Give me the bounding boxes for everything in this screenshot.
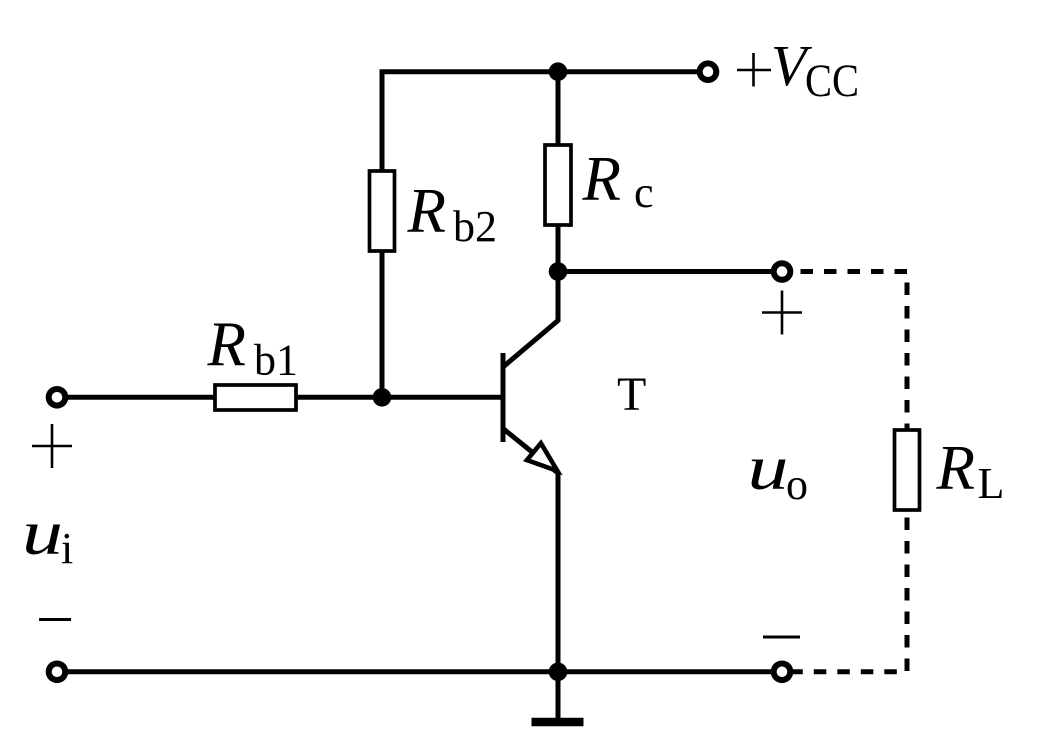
wire top rail and Rb2 vertical — [382, 72, 700, 398]
label input plus — [32, 445, 72, 448]
terminal output top — [774, 263, 791, 280]
wire collector to output — [558, 269, 775, 274]
wire emitter diagonal and vertical — [503, 429, 558, 672]
wire bottom rail — [57, 669, 775, 674]
resistor RL body — [895, 430, 920, 510]
svg-text:u: u — [22, 498, 63, 568]
svg-text:u: u — [748, 433, 789, 503]
node collector junction — [549, 262, 568, 281]
resistor Rb1 body — [215, 385, 296, 410]
svg-text:R: R — [207, 310, 246, 380]
resistor Rb2 body — [370, 171, 395, 251]
svg-text:R: R — [407, 176, 446, 246]
label input minus — [39, 618, 71, 621]
transistor T emitter arrow — [527, 443, 558, 471]
terminal output bottom — [774, 664, 791, 681]
label +Vcc plus sign — [737, 69, 771, 72]
svg-text:o: o — [786, 460, 808, 509]
wire Rc vertical and collector diagonal — [503, 72, 558, 367]
svg-text:CC: CC — [805, 55, 859, 107]
wire input/base — [57, 395, 503, 400]
svg-text:T: T — [617, 368, 646, 421]
terminal input top — [49, 389, 66, 406]
wire dashed RL loop — [793, 272, 907, 672]
svg-text:R: R — [936, 433, 975, 503]
svg-text:L: L — [978, 459, 1005, 508]
label output minus — [763, 636, 800, 639]
node top junction — [549, 62, 568, 81]
resistor Rc body — [545, 145, 571, 225]
svg-text:R: R — [582, 144, 621, 214]
terminal input bottom — [49, 664, 66, 681]
ground — [556, 672, 561, 718]
node base junction — [373, 388, 392, 407]
svg-text:b2: b2 — [453, 202, 497, 251]
svg-text:i: i — [61, 524, 73, 573]
transistor T base bar — [501, 353, 506, 442]
label output plus — [762, 311, 802, 314]
node emitter junction — [549, 663, 568, 682]
svg-text:b1: b1 — [254, 336, 298, 385]
svg-text:c: c — [634, 168, 654, 217]
terminal Vcc — [700, 63, 717, 80]
